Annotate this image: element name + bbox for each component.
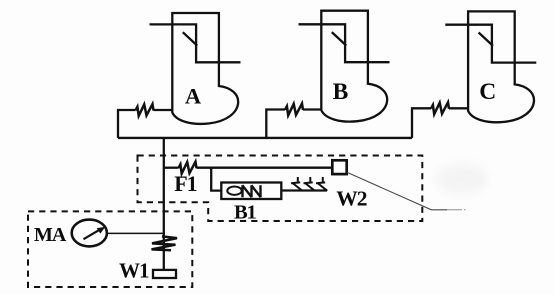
switch of C (445, 25, 536, 63)
break mark 3 (316, 177, 327, 191)
svg-text:C: C (479, 79, 496, 105)
switch of B (299, 24, 390, 62)
bus wire (118, 137, 412, 139)
leader line from W2 (347, 172, 447, 210)
wire fuse to C (449, 107, 468, 109)
svg-text:W1: W1 (119, 258, 149, 282)
wire fuse to B (303, 108, 321, 110)
appliance A (172, 13, 238, 124)
switch of A (150, 24, 241, 62)
main drop wire (163, 138, 165, 270)
bell B1 coil circle (227, 187, 241, 195)
break mark 2 (304, 177, 315, 191)
fuse on branch B (285, 104, 303, 116)
bell B1 box (221, 183, 281, 200)
meter MA needle (84, 230, 100, 239)
svg-text:W2: W2 (336, 187, 367, 211)
wire tap to B1 (211, 168, 221, 191)
bell B1 NN marks (242, 185, 260, 197)
wire fuse to A (154, 109, 173, 111)
upper dashed box (138, 156, 423, 222)
wire B1 to break (281, 189, 327, 191)
break mark 1 (291, 177, 302, 191)
wire MA to drop (107, 232, 164, 234)
svg-text:MA: MA (34, 224, 67, 246)
wire F1 to W2 (197, 167, 333, 169)
wire riser A to fuse (118, 110, 136, 138)
meter MA needle head (97, 227, 106, 234)
meter MA circle (72, 220, 107, 247)
socket W2 (332, 160, 346, 174)
fuse F1 (179, 162, 197, 174)
fuse on branch A (136, 104, 154, 116)
svg-text:B1: B1 (234, 201, 256, 223)
appliance C (468, 11, 534, 122)
svg-text:F1: F1 (174, 171, 196, 196)
svg-text:A: A (185, 83, 202, 108)
appliance B (321, 11, 387, 122)
leader tail (447, 209, 466, 211)
paper smudge (436, 164, 488, 194)
socket W1 box (153, 270, 176, 278)
lower dashed box (28, 211, 192, 287)
wire riser C to fuse (412, 108, 431, 138)
wire drop to fuse F1 (164, 167, 179, 169)
svg-text:B: B (333, 79, 349, 105)
fuse W1 (vertical) (152, 236, 178, 250)
wire riser B to fuse (266, 110, 285, 138)
fuse on branch C (431, 102, 449, 114)
